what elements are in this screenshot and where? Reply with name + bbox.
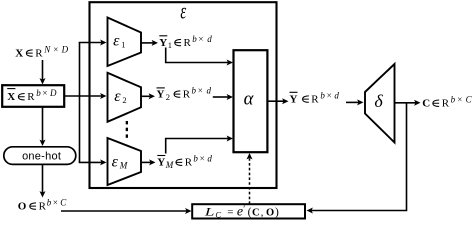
wire Xbar to one-hot (40, 107, 46, 146)
svg-text:R: R (185, 157, 193, 169)
svg-text:M: M (165, 160, 174, 170)
svg-text:(: ( (248, 207, 252, 219)
svg-text:N: N (43, 45, 51, 55)
svg-text:×: × (42, 88, 47, 98)
svg-text:=: = (227, 206, 233, 218)
svg-text:Y: Y (159, 37, 167, 49)
wire delta to C (395, 100, 421, 106)
node X input label (15, 45, 68, 60)
node O output label (18, 198, 67, 213)
svg-text:R: R (311, 94, 319, 106)
svg-text:L: L (204, 206, 215, 219)
wire bus to E1 (79, 40, 107, 46)
node Y2 label (157, 86, 212, 103)
svg-text:one-hot: one-hot (22, 150, 61, 162)
svg-text:2: 2 (122, 95, 126, 105)
svg-text:×: × (53, 198, 58, 208)
box Xbar (2, 85, 64, 107)
dashed wire loss to alpha (247, 153, 253, 204)
svg-text:X: X (7, 91, 15, 103)
wire Y2 to alpha (213, 94, 233, 100)
wire Y1 to alpha (166, 48, 233, 66)
svg-text:×: × (200, 154, 205, 164)
decoder delta trapezoid (365, 64, 395, 143)
svg-text:C: C (466, 95, 473, 105)
svg-text:d: d (207, 86, 212, 96)
svg-text:Y: Y (157, 157, 165, 169)
svg-text:b: b (451, 95, 456, 105)
svg-text:α: α (244, 89, 255, 109)
encoder EM trapezoid (108, 138, 142, 185)
svg-text:d: d (334, 91, 339, 101)
svg-text:R: R (442, 98, 450, 110)
encoder E1 trapezoid (108, 18, 142, 67)
svg-text:ε: ε (180, 0, 186, 25)
svg-text:×: × (327, 91, 332, 101)
bus vertical wire (79, 43, 81, 163)
wire X to Xbar (40, 60, 46, 85)
svg-text:ε: ε (113, 33, 120, 50)
svg-text:e: e (237, 205, 243, 220)
svg-text:,: , (261, 207, 264, 218)
svg-text:R: R (35, 48, 43, 60)
node Y1 label (159, 34, 212, 50)
wire Xbar to E2 (65, 93, 107, 99)
svg-text:b: b (192, 86, 197, 96)
svg-text:ε: ε (112, 154, 119, 171)
node C output label (422, 95, 472, 110)
wire YM to alpha (166, 136, 233, 154)
svg-text:C: C (422, 98, 430, 110)
wire alpha to Ybar (268, 98, 289, 104)
wire EM to YM (141, 159, 156, 165)
svg-text:d: d (207, 34, 212, 44)
svg-text:R: R (27, 91, 35, 103)
svg-text:C: C (252, 207, 260, 218)
svg-text:δ: δ (374, 91, 383, 111)
svg-text:): ) (275, 207, 279, 219)
node YM label (157, 154, 212, 170)
svg-text:×: × (457, 95, 462, 105)
svg-text:b: b (36, 88, 41, 98)
svg-text:1: 1 (168, 40, 172, 50)
svg-text:b: b (320, 91, 325, 101)
node Ybar label (290, 91, 340, 106)
svg-text:R: R (184, 37, 192, 49)
wire C branch down to loss box (307, 103, 407, 214)
loss box (192, 204, 305, 219)
label script E (ensemble) (180, 0, 186, 25)
wire O to loss box (61, 208, 192, 214)
svg-text:ε: ε (114, 88, 121, 105)
encoder ensemble box E (90, 2, 277, 188)
wire Ybar to delta (346, 99, 364, 105)
wire bus to EM (79, 159, 107, 165)
svg-text:×: × (198, 86, 203, 96)
svg-text:Y: Y (290, 94, 298, 106)
svg-text:D: D (49, 88, 57, 98)
svg-text:2: 2 (166, 92, 170, 102)
svg-text:b: b (192, 34, 197, 44)
alpha box (234, 50, 268, 152)
svg-text:O: O (18, 201, 27, 213)
wire one-hot to O (40, 165, 46, 198)
svg-text:R: R (39, 201, 47, 213)
svg-text:′: ′ (243, 204, 245, 214)
svg-text:b: b (193, 154, 198, 164)
svg-text:M: M (119, 160, 128, 170)
encoder E2 trapezoid (108, 73, 142, 122)
wire E2 to Y2 (141, 93, 155, 99)
svg-text:b: b (47, 198, 52, 208)
svg-text:×: × (53, 45, 58, 55)
svg-text:X: X (15, 48, 23, 60)
wire E1 to Y1 (141, 40, 158, 46)
svg-text:D: D (61, 45, 69, 55)
svg-text:×: × (198, 34, 203, 44)
ellipsis dots between E2 and EM (126, 121, 128, 138)
svg-text:R: R (183, 89, 191, 101)
svg-text:C: C (215, 210, 221, 220)
svg-text:d: d (207, 154, 212, 164)
one-hot box (4, 147, 76, 165)
svg-text:C: C (60, 198, 67, 208)
svg-text:O: O (266, 207, 274, 218)
svg-text:1: 1 (121, 40, 125, 50)
svg-text:Y: Y (157, 89, 165, 101)
